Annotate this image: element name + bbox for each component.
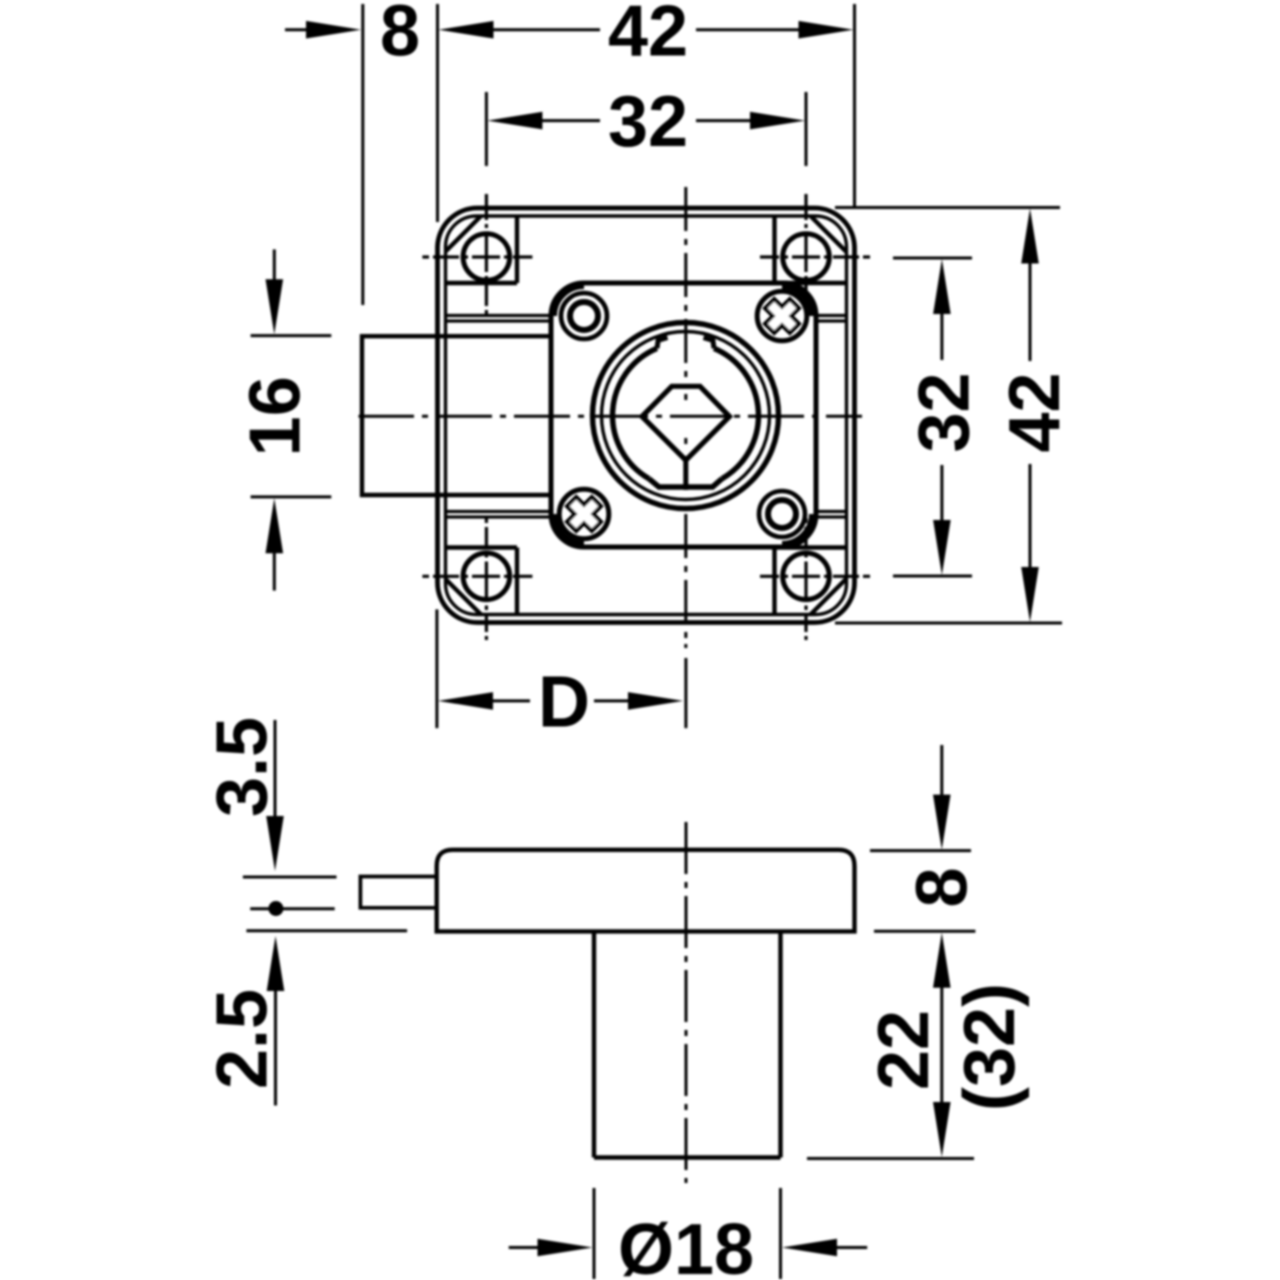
dim D: extension line left: [435, 609, 438, 728]
cylinder stem (side view): [594, 931, 781, 1157]
dim 3.5: arrow: [274, 720, 277, 820]
dim 8 top: extension line left: [361, 4, 364, 305]
corner tab bottom-left: [446, 548, 518, 615]
dim 22(32): double arrow: [933, 933, 951, 988]
dim 32 right: dimension line with arrows: [933, 259, 951, 314]
retaining ring left arc: [613, 348, 657, 478]
dim 42 top: extension line right: [853, 4, 856, 207]
dim 32 top: extension lines: [486, 92, 806, 166]
ring pin bottom-right: [759, 491, 805, 537]
dim 42 right: dimension line with arrows: [1021, 209, 1039, 264]
crosshair top-left hole: [422, 194, 532, 315]
svg-text:22: 22: [864, 1010, 944, 1090]
crosshair bottom-left hole: [422, 518, 532, 640]
dim 22(32): bottom extension line: [807, 1157, 974, 1160]
retaining ring right arc: [714, 348, 758, 478]
case fold lines left: [446, 316, 552, 518]
phillips screw bottom-left: [559, 489, 609, 539]
dim 42 right: extension lines: [835, 208, 1062, 624]
mounting hole bottom-left: [463, 553, 510, 600]
mounting hole bottom-right: [783, 553, 830, 600]
dim diameter 18: extension lines: [594, 1188, 781, 1279]
dim 16 left: extension lines: [251, 336, 332, 497]
lock case inner outline: [446, 216, 847, 615]
dim 3.5: extension line bottom with dot: [250, 907, 335, 910]
case flange (side view): [437, 850, 855, 932]
spindle square hole: [642, 386, 730, 460]
mounting hole top-right: [783, 234, 830, 281]
svg-text:(32): (32): [950, 983, 1030, 1111]
corner tab bottom-right: [775, 548, 847, 615]
dim 8 side: extension lines: [870, 851, 975, 932]
dim 8 top: extension line right (body edge extended): [436, 4, 439, 222]
cylinder outer circle: [593, 323, 779, 509]
svg-text:42: 42: [995, 372, 1075, 452]
svg-text:16: 16: [236, 376, 316, 456]
latch stub (side view): [360, 877, 436, 908]
retaining ring tab top-right: [704, 338, 715, 349]
dim 3.5: extension line top: [243, 876, 337, 879]
spindle slot line: [683, 456, 688, 490]
corner tab top-right: [775, 216, 847, 283]
retaining ring bottom chord: [649, 479, 722, 487]
svg-text:Ø18: Ø18: [618, 1210, 754, 1280]
svg-text:8: 8: [380, 0, 420, 72]
lock case outer outline (top view): [438, 208, 855, 623]
svg-text:8: 8: [903, 867, 983, 907]
svg-text:3.5: 3.5: [203, 717, 283, 817]
plate ear arc bottom-left: [554, 514, 585, 545]
dim 42 top: dimension line with arrows: [439, 21, 494, 39]
case fold lines right: [816, 316, 847, 518]
horizontal centerline: [359, 415, 863, 418]
svg-text:32: 32: [905, 372, 985, 452]
vertical centerline: [684, 187, 687, 648]
dim 2.5: arrow: [267, 936, 285, 991]
mounting plate: [551, 283, 816, 547]
dim 32 right: extension lines: [893, 258, 972, 576]
plate ear arc top-right: [782, 286, 813, 317]
latch bolt: [362, 336, 551, 495]
crosshair bottom-right hole: [760, 518, 870, 640]
ring pin top-left: [561, 293, 607, 339]
plate ear arc bottom-right: [782, 514, 813, 545]
dim 16 left: arrows: [273, 249, 276, 284]
crosshair top-right hole: [760, 194, 870, 315]
plate ear arc top-left: [554, 286, 585, 317]
dim diameter 18: arrows: [509, 1246, 541, 1249]
side view vertical centerline: [685, 822, 688, 1183]
svg-text:D: D: [538, 662, 590, 742]
dim 32 top: dimension line with arrows: [487, 112, 542, 130]
cylinder inner circle: [602, 332, 770, 500]
svg-text:42: 42: [608, 0, 688, 72]
dim D: right extension (solid centerline segment): [684, 658, 687, 728]
dim 2.5: extension line: [246, 929, 407, 932]
dim 8 top: arrow: [285, 28, 310, 31]
mounting hole top-left: [463, 234, 510, 281]
svg-text:2.5: 2.5: [203, 989, 283, 1089]
svg-text:32: 32: [608, 82, 688, 162]
dim D: dimension line with arrows: [438, 692, 493, 710]
retaining ring tab top-left: [657, 338, 668, 349]
corner tab top-left: [446, 216, 518, 283]
phillips screw top-right: [757, 291, 807, 341]
dim 8 side: arrow above: [940, 745, 943, 799]
